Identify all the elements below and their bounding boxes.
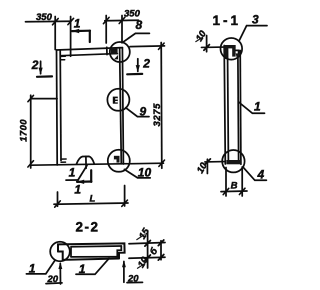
section 2-2 inner lines <box>71 246 121 257</box>
svg-text:1: 1 <box>29 262 36 276</box>
section 2-2 profile outline <box>58 243 125 260</box>
svg-text:В: В <box>231 181 238 192</box>
svg-text:350: 350 <box>124 8 141 19</box>
svg-text:2: 2 <box>31 58 39 72</box>
section mark 1 top <box>72 29 90 42</box>
panel top band inner line <box>60 54 117 56</box>
section mark 2 right <box>127 59 142 75</box>
leader and label 1 (section 2-2 left) <box>26 260 55 274</box>
svg-text:2: 2 <box>142 56 150 70</box>
svg-text:1: 1 <box>69 165 76 179</box>
leader and label 4 <box>243 167 266 180</box>
embedded plate in circle 9 <box>113 97 118 104</box>
dimension 10 top (section 1-1) <box>201 36 223 52</box>
dimension 350 left <box>26 17 74 57</box>
section 1-1 bottom cap <box>226 160 240 164</box>
svg-text:1-1: 1-1 <box>213 13 242 28</box>
panel bottom edge with extensions <box>31 163 164 165</box>
stacked dimensions 15 / b / 10 (section 2-2 right) <box>129 231 165 269</box>
panel right edge <box>122 48 123 164</box>
section mark 2 left <box>37 61 52 77</box>
detail circle (section 2-2 left end) <box>50 242 70 262</box>
leader and label 10 <box>124 169 150 178</box>
svg-text:1: 1 <box>74 183 81 197</box>
svg-text:1: 1 <box>74 17 81 31</box>
svg-text:1: 1 <box>79 262 86 276</box>
leader and label 1 (bump) <box>66 165 87 180</box>
top-left corner rebate <box>61 56 66 60</box>
section 1-1 profile left wall <box>224 46 228 165</box>
dimension B (section 1-1) <box>221 167 247 196</box>
svg-text:3275: 3275 <box>152 103 163 127</box>
detail circle 3 <box>221 38 243 60</box>
leader and label 8 <box>122 33 149 42</box>
svg-text:10: 10 <box>138 166 152 180</box>
panel top edge <box>57 48 123 50</box>
section 1-1 top cap <box>224 45 241 59</box>
embedded plate in circle 8 <box>111 48 118 59</box>
dimension 3275 <box>130 43 165 169</box>
detail circle 10 (bottom right corner) <box>108 150 130 172</box>
section mark 1 bottom <box>77 170 92 184</box>
svg-text:4: 4 <box>257 168 265 182</box>
svg-text:20: 20 <box>47 274 59 285</box>
dimension 10 bottom (section 1-1) <box>205 159 224 174</box>
dimension 20 right (section 2-2) <box>122 260 143 282</box>
dimension L <box>54 186 128 208</box>
drain bump at bottom center <box>77 156 95 168</box>
svg-text:3: 3 <box>252 13 259 27</box>
dimension 350 right <box>103 16 138 55</box>
leader and label 1 (section 1-1) <box>239 102 265 113</box>
svg-text:2-2: 2-2 <box>76 220 100 235</box>
detail circle 8 (top right corner) <box>110 42 130 62</box>
leader and label 9 <box>126 108 149 117</box>
panel right rib inner line <box>120 48 122 164</box>
dimension 20 left (section 2-2) <box>46 262 62 284</box>
panel left edge <box>56 50 59 165</box>
dimension 1700 <box>28 95 57 168</box>
leader and label 3 <box>239 26 267 42</box>
leader and label 1 (section 2-2 middle) <box>76 258 109 274</box>
svg-text:350: 350 <box>36 12 53 23</box>
svg-text:1: 1 <box>254 99 261 113</box>
detail circle 9 (right rib middle) <box>107 89 129 111</box>
detail circle 4 <box>222 150 244 172</box>
svg-text:20: 20 <box>127 273 139 284</box>
section 1-1 top cap step outline <box>236 50 239 53</box>
bottom-left corner rebate <box>61 159 66 162</box>
svg-text:L: L <box>90 194 96 205</box>
embedded plate in circle 10 <box>114 156 120 163</box>
svg-text:1700: 1700 <box>18 119 29 142</box>
svg-text:9: 9 <box>140 104 147 118</box>
section 1-1 profile right wall <box>238 51 241 165</box>
panel left rib inner line <box>59 50 62 161</box>
